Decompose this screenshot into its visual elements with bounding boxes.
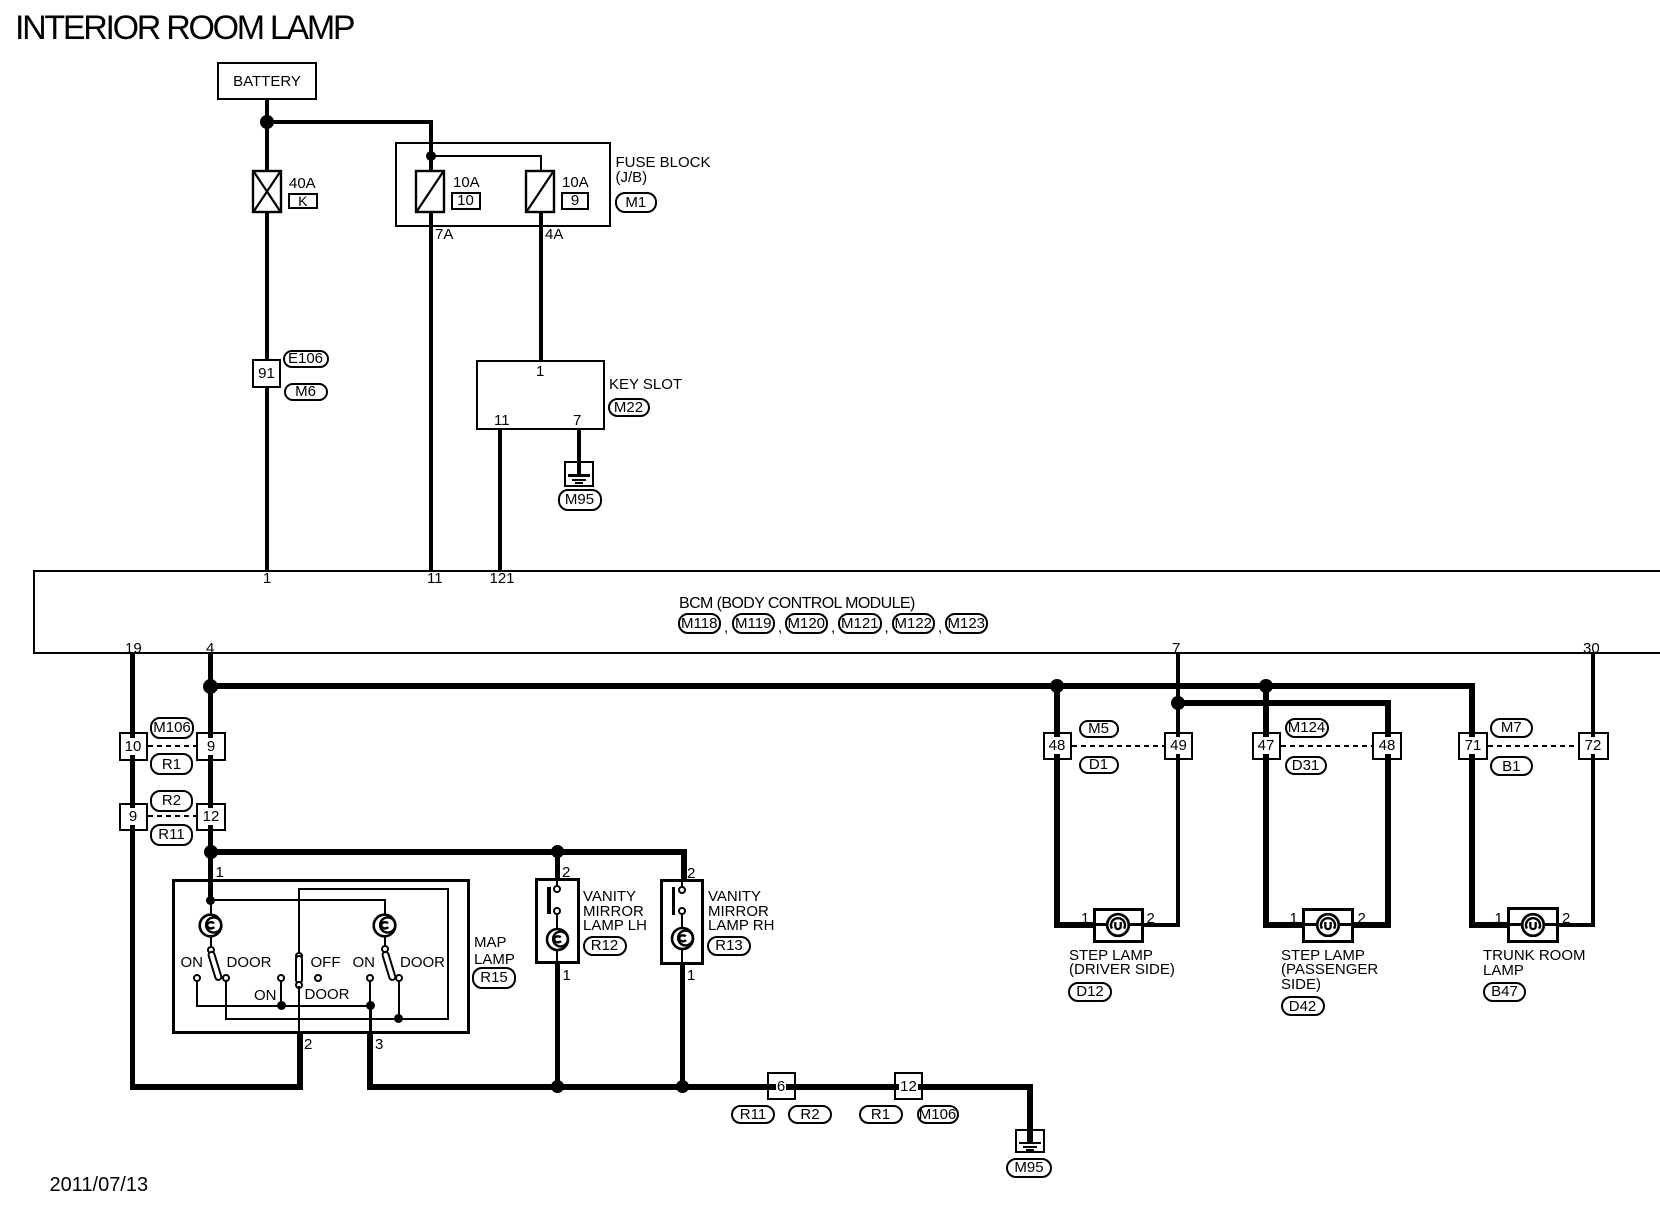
wire dashed pair M106/R1 (148, 745, 197, 747)
wire pin 2 inside (298, 986, 300, 1034)
switch 1 blade (206, 950, 223, 982)
fuse 10A #9 (523, 168, 557, 215)
connector 47 (passenger feed) (1252, 732, 1281, 760)
label TRUNK ROOM LAMP (1483, 948, 1586, 978)
connector R13 (707, 936, 751, 957)
step lamp driver box (1093, 908, 1144, 943)
wire lamp2 top lead (384, 899, 386, 915)
switch mid terminal ON (277, 974, 285, 982)
node pin 4 junction (203, 679, 218, 694)
wire ON net horizontal (196, 1005, 372, 1007)
wire branch 48 driver down (1054, 685, 1060, 928)
pin 7 BCM (1172, 641, 1180, 658)
wire feed bus 2 (pin 7) (1176, 700, 1391, 706)
connector M122 (892, 613, 936, 634)
wire bottom-left horizontal to map lamp pin 2 (130, 1084, 303, 1090)
wire passenger lamp pin 1 horizontal (1263, 922, 1303, 928)
wire battery down (265, 100, 269, 172)
node fuse block feed (426, 151, 436, 161)
ground M95 (bottom) (1015, 1129, 1046, 1153)
wire DOOR net: sw1 down (225, 981, 227, 1020)
wire DOOR net horizontal (225, 1018, 400, 1020)
wire map lamp pin1 inside (208, 881, 213, 903)
switch mid blade (295, 955, 303, 984)
wire battery junction horizontal (265, 120, 432, 124)
map lamp inner box (298, 888, 449, 1020)
pin 2 trunk (1562, 911, 1570, 928)
wire dashed M124/D31 (1281, 745, 1373, 747)
node map lamp internal junction (206, 896, 215, 905)
label K box (288, 193, 318, 209)
connector M1 (615, 192, 658, 213)
label KEY SLOT (609, 377, 682, 394)
connector 71 (trunk feed) (1458, 732, 1488, 760)
vanity LH lead top (556, 881, 558, 886)
switch 1 terminal DOOR (222, 974, 230, 982)
wire pin 3 inside (369, 1005, 372, 1034)
node battery junction (260, 115, 274, 129)
wire passenger lamp pin 2 horizontal (1351, 922, 1391, 928)
pin 1 step driver (1081, 911, 1089, 928)
wire to fuse 9 top (540, 155, 542, 171)
connector M119 (732, 613, 776, 634)
vanity LH switch contact bottom (553, 907, 561, 915)
wire branch 71 trunk down (1469, 683, 1475, 928)
connector 12 (196, 803, 226, 832)
wire bottom bus (367, 1084, 1033, 1090)
connector M7 (1490, 718, 1534, 738)
label DOOR (switch2) (400, 955, 445, 972)
label VANITY MIRROR LAMP RH (708, 890, 774, 934)
node vanity LH feed (551, 845, 564, 858)
wire lamp2 bottom lead (384, 935, 386, 946)
vanity mirror lamp RH box (660, 879, 704, 965)
wire vanity RH pin 1 down (680, 964, 685, 1090)
connector R15 (472, 967, 516, 989)
node vanity LH to bus (551, 1080, 564, 1093)
wire ON net: sw2 down (369, 981, 371, 1005)
label BCM (679, 595, 915, 613)
label DOOR (mid below) (305, 987, 350, 1004)
connector D1 (1079, 756, 1119, 775)
pin 11 key slot (494, 413, 510, 430)
connector M121 (838, 613, 882, 634)
connector E106 (283, 350, 329, 368)
BCM (Body Control Module) box (33, 570, 1660, 654)
label STEP LAMP (DRIVER SIDE) (1069, 949, 1175, 979)
connector 9 (M106 side) (196, 732, 226, 761)
connector M22 (608, 398, 650, 417)
vanity RH lead bottom (681, 949, 683, 962)
label fuse number 9 (561, 192, 589, 210)
connector R12 (583, 936, 627, 957)
pin 1 trunk (1495, 911, 1503, 928)
wire dashed pair R2/R11 (148, 815, 197, 817)
label ON (switch2) (353, 955, 376, 972)
wire feed bus 1 (pin 4) (208, 683, 1475, 689)
pin 1 key slot (536, 364, 544, 381)
wire DOOR net: sw2 down (398, 981, 400, 1020)
pin 2 vanity LH (562, 865, 570, 882)
connector D12 (1068, 982, 1112, 1002)
pin 4 BCM (206, 641, 214, 658)
step lamp passenger box (1302, 908, 1354, 943)
node map lamp feed junction (204, 845, 218, 859)
wire trunk lamp pin 2 horizontal (1557, 923, 1596, 927)
wire dashed M5/D1 (1072, 745, 1165, 747)
label DOOR (switch1) (227, 955, 272, 972)
vanity RH switch bar (672, 887, 676, 915)
wire driver lamp pin 1 horizontal (1054, 922, 1094, 928)
connector 48b (passenger return) (1372, 732, 1402, 760)
node ON net mid (277, 1001, 286, 1010)
lamp bulb trunk (1518, 910, 1548, 940)
ground M95 (key slot) (564, 461, 594, 487)
connector 91 (252, 359, 281, 389)
wire map lamp pin 1 (208, 854, 213, 902)
title (15, 10, 353, 47)
connector 48 (driver feed) (1043, 732, 1072, 760)
connector M106 (bottom) (917, 1105, 959, 1124)
wire trunk lamp internal (1508, 923, 1559, 926)
wire vanity RH pin 2 (corner) (681, 849, 687, 880)
wire passenger lamp internal (1302, 923, 1352, 926)
wire BCM pin 7 down (1176, 654, 1180, 927)
connector R11 (150, 824, 193, 846)
pin 1 step passenger (1290, 911, 1298, 928)
wire key slot pin 11 to BCM pin 121 (498, 430, 502, 570)
switch mid bottom pivot (295, 981, 303, 989)
connector 72 (trunk return) (1578, 732, 1609, 760)
connector M95 (key slot ground) (558, 489, 602, 511)
trunk room lamp box (1507, 907, 1559, 943)
connector B47 (1483, 982, 1526, 1002)
label OFF (311, 955, 341, 972)
switch mid terminal OFF (314, 974, 322, 982)
wire ON net: mid down (280, 981, 282, 1005)
vanity mirror lamp LH box (535, 878, 580, 964)
wire map lamp pin 2 stub (297, 1033, 303, 1090)
label 7A (435, 227, 453, 244)
switch mid top pivot (295, 952, 303, 960)
wire lamp1 bottom lead (210, 935, 212, 946)
connector M6 (284, 383, 328, 401)
pin 7 key slot (573, 413, 581, 430)
node pin 7 junction (1171, 696, 1185, 710)
node vanity RH to bus (676, 1080, 689, 1093)
pin 2 map lamp (304, 1037, 312, 1054)
wire map internal horizontal (210, 899, 386, 901)
pin 121 BCM (490, 571, 515, 588)
connector R1 (150, 753, 193, 775)
pin 1 map lamp (216, 865, 224, 882)
vanity RH switch contact bottom (678, 907, 686, 915)
connector R1 (bottom) (859, 1105, 903, 1124)
pin 2 step passenger (1358, 911, 1366, 928)
date (50, 1174, 149, 1196)
label 10A (fuse 10) (453, 175, 480, 192)
pin 1 vanity LH (563, 968, 571, 985)
connector D42 (1281, 996, 1325, 1016)
connector M118 (678, 613, 722, 634)
lamp bulb step passenger (1313, 910, 1343, 940)
connector M106 (150, 717, 194, 739)
pin 30 BCM (1583, 641, 1600, 658)
wire ON net: sw1 down (196, 981, 198, 1007)
wire branch 48b passenger down (1385, 700, 1391, 928)
switch 1 terminal ON (193, 974, 201, 982)
switch 2 terminal ON (366, 974, 374, 982)
vanity RH lead mid (681, 915, 683, 930)
battery box (217, 62, 317, 100)
label 10A (fuse 9) (562, 175, 589, 192)
wire fuse block internal horizontal (430, 155, 541, 157)
map lamp box (172, 879, 470, 1035)
wire trunk lamp pin 1 horizontal (1469, 922, 1508, 928)
label fuse number 10 (451, 192, 481, 210)
connector M124 (1285, 718, 1329, 738)
lamp bulb vanity LH (543, 925, 572, 954)
pin 3 map lamp (375, 1037, 383, 1054)
wire connector 91 to BCM pin 1 (265, 387, 269, 570)
switch 1 pivot (207, 946, 215, 954)
wire driver lamp pin 2 horizontal (1142, 923, 1178, 927)
wire key slot pin 7 to ground (577, 430, 581, 476)
fuse 10A #10 (413, 168, 447, 215)
label VANITY MIRROR LAMP LH (583, 890, 647, 934)
vanity LH lead mid (556, 915, 558, 930)
pin 11 BCM (427, 571, 443, 588)
wire vanity LH pin 2 (555, 852, 560, 879)
lamp bulb 1 (map) (196, 911, 225, 940)
fuse block box M1 (395, 142, 611, 227)
label STEP LAMP (PASSENGER SIDE) (1281, 949, 1378, 993)
wire vanity LH pin 1 down (555, 963, 560, 1090)
connector R2 (bottom) (788, 1105, 832, 1124)
connector B1 (1490, 756, 1534, 776)
vanity RH lead top (681, 882, 683, 887)
wire driver lamp internal (1093, 923, 1143, 926)
label MAP LAMP (474, 935, 515, 968)
vanity LH switch contact top (553, 885, 561, 893)
connector 49 (driver return) (1164, 732, 1193, 760)
pin 19 BCM (125, 641, 142, 658)
connector M120 (785, 613, 829, 634)
connector M123 (945, 613, 989, 634)
pin 1 BCM (263, 571, 271, 588)
switch 2 pivot (381, 945, 389, 953)
wire lamp1 top lead (210, 900, 212, 915)
pin 1 vanity RH (687, 968, 695, 985)
wire branch 47 passenger down (1263, 685, 1269, 928)
wire fusible link to connector 91 (265, 212, 269, 359)
switch 2 blade (380, 949, 397, 981)
wire BCM pin 30 down (1591, 654, 1595, 927)
wire map lamp bus (208, 849, 688, 855)
wire BCM pin 19 down (130, 654, 135, 1090)
connector 10 (R1 side) (119, 732, 148, 761)
switch 2 terminal DOOR (395, 974, 403, 982)
wire map lamp pin 3 stub (367, 1033, 373, 1090)
wire fuse10 out to BCM pin 11 (429, 212, 433, 570)
connector 12 (bottom) (894, 1072, 923, 1100)
vanity LH switch bar (547, 887, 551, 915)
label ON (switch1) (181, 955, 204, 972)
lamp bulb step driver (1103, 910, 1133, 940)
wire fuse9 out to key slot pin 1 (539, 212, 543, 360)
lamp bulb vanity RH (668, 924, 697, 953)
wire to fuse 10 top (429, 120, 433, 171)
connector D31 (1285, 756, 1327, 775)
label 4A (545, 227, 563, 244)
connector 6 (767, 1072, 796, 1100)
node ON net pin3 (366, 1001, 375, 1010)
node step lamp driver feed (1050, 679, 1064, 693)
pin 2 step driver (1147, 911, 1155, 928)
node step lamp passenger feed (1259, 679, 1273, 693)
pin 2 vanity RH (687, 866, 695, 883)
connector R11 (bottom) (731, 1105, 775, 1124)
vanity RH switch contact top (678, 886, 686, 894)
vanity LH lead bottom (556, 950, 558, 962)
connector 9 (R2 side) (119, 803, 148, 832)
connector M95 (bottom ground) (1006, 1158, 1052, 1178)
label ON (mid below) (254, 988, 277, 1005)
wire BCM pin 4 down (208, 654, 213, 854)
connector R2 (150, 790, 193, 812)
node DOOR net (394, 1014, 403, 1023)
label FUSE BLOCK (J/B) (616, 155, 711, 186)
label 40A (289, 176, 316, 193)
key slot box (476, 360, 605, 431)
wire dashed M7/B1 (1488, 745, 1578, 747)
connector M5 (1079, 720, 1119, 739)
wire ground drop (1027, 1084, 1033, 1144)
lamp bulb 2 (map) (370, 911, 399, 940)
fusible link K 40A (250, 168, 284, 215)
